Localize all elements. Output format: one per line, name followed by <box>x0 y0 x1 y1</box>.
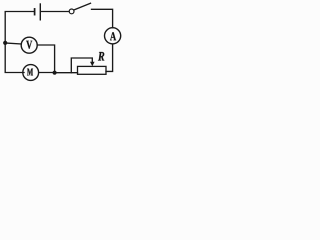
wire switch to ammeter <box>92 9 113 27</box>
switch S <box>69 3 90 14</box>
node B junction dot <box>53 71 57 75</box>
wire voltmeter to node A <box>5 43 21 44</box>
rheostat R body <box>78 66 107 74</box>
wire rheostat to node B <box>55 72 78 74</box>
node A junction dot <box>3 41 7 45</box>
wire top-left <box>5 12 34 73</box>
wire node B up to voltmeter branch <box>37 45 54 73</box>
motor M <box>23 65 39 81</box>
label V <box>26 41 32 49</box>
wire motor to node B <box>39 72 55 74</box>
label M <box>27 69 33 76</box>
wire ammeter to rheostat <box>106 44 113 71</box>
label R <box>98 52 104 61</box>
voltmeter U-V <box>21 37 37 53</box>
wiper arm wire <box>71 58 92 73</box>
wiper arrowhead <box>90 62 95 67</box>
battery B1 <box>35 4 41 20</box>
label A <box>110 32 116 40</box>
ammeter U-A <box>105 28 121 44</box>
wire battery to switch <box>41 11 69 13</box>
